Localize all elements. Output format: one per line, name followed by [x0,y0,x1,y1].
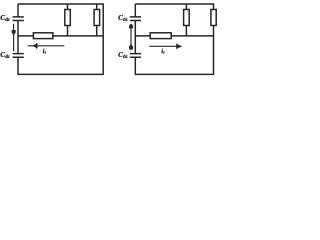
wire: right circuit middle rail [135,35,213,37]
capacitor C4 bottom (Cdc) right circuit [130,54,141,58]
current arrow i_s (right) on right circuit [149,45,181,47]
wire: left branch middle lead [17,21,19,53]
wire: left circuit bottom rail [18,73,104,75]
capacitor C2 bottom (Cdc) [13,54,24,58]
wire: left circuit middle rail [18,35,103,37]
svg-text:is: is [43,48,47,55]
wire: right circuit bottom rail [135,73,214,75]
wire: right branch middle lead [134,21,136,53]
resistor R4 right circuit [185,4,187,36]
wire: right branch upper lead [134,4,136,16]
current arrow (down) beside left branch [13,24,15,52]
svg-text:Cdc: Cdc [0,14,11,23]
wire: left circuit top rail [18,3,103,5]
resistor R3 series box left circuit [33,33,53,39]
resistor R2 left circuit [96,4,98,36]
current arrow (up) beside right branch [130,26,132,50]
svg-text:Cdc: Cdc [118,14,129,23]
wire: left branch upper lead [17,4,19,16]
current arrow i_s (left) on left circuit [28,45,65,47]
wire: left branch lower lead [17,58,19,75]
svg-text:Cdc: Cdc [118,51,129,60]
resistor R1 left circuit [67,4,69,36]
wire: right branch lower lead [134,58,136,75]
svg-text:Cdc: Cdc [0,51,11,60]
capacitor C3 top (Cdc) right circuit [130,17,141,21]
resistor R6 series box right circuit [150,33,171,39]
resistor R5 right edge leg right circuit [213,3,215,74]
svg-text:is: is [161,48,165,55]
wire: right circuit top rail [135,3,213,5]
capacitor C1 top (Cdc) [13,17,24,21]
wire: left circuit right edge [102,3,104,74]
